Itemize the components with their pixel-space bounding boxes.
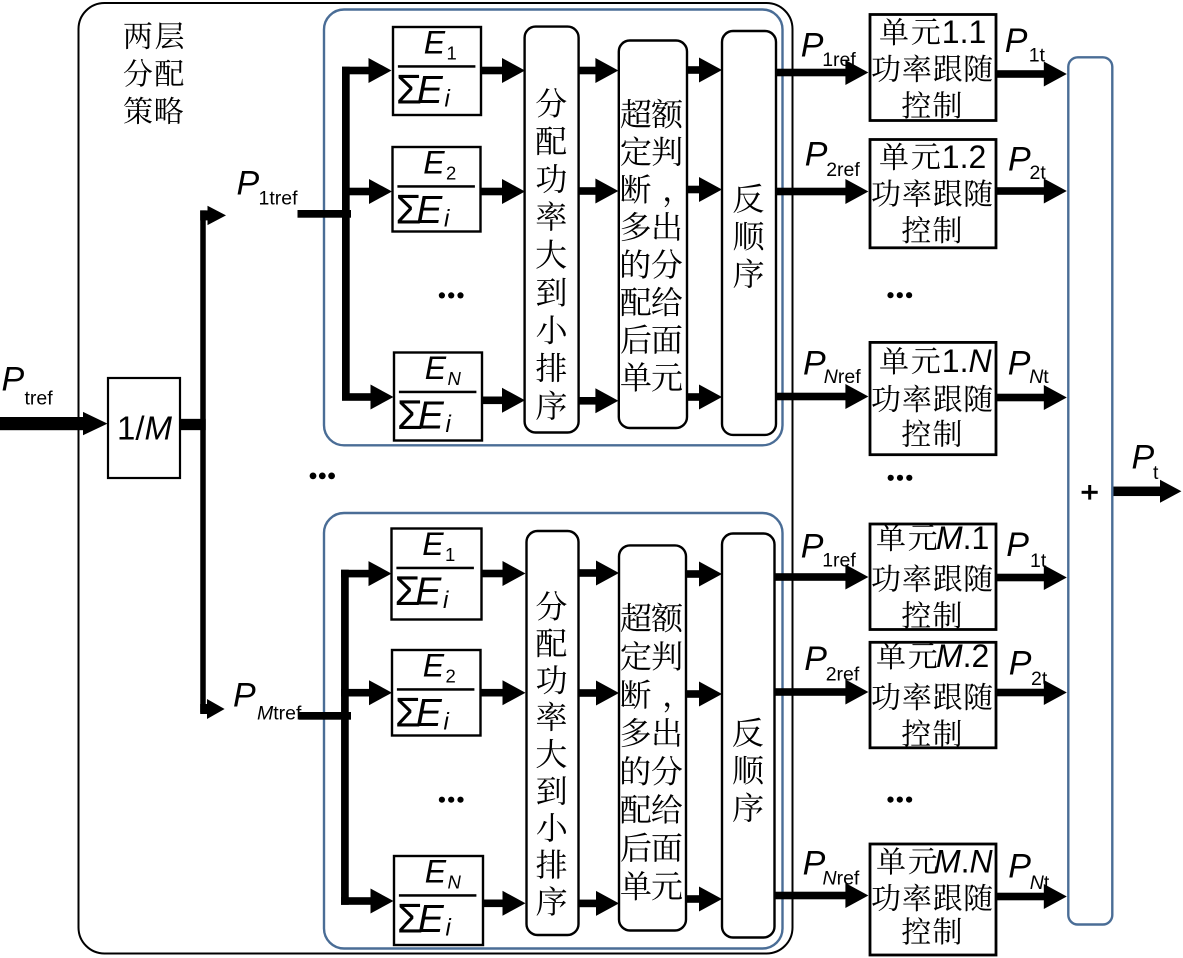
wire overrating to reverse row3 group1 [687, 393, 701, 401]
wire trunk to E2 groupM [341, 689, 371, 697]
wire trunk to E2 group1 [342, 188, 371, 196]
wire P_Mtref feed into group M [299, 712, 351, 720]
svg-text:Mtref: Mtref [257, 703, 302, 725]
wire 1/M output to branch trunk [181, 419, 206, 430]
svg-text:E: E [425, 350, 447, 386]
box E_2/sumE_i at (392.5,147) [393, 144, 481, 232]
svg-text:1t: 1t [1030, 550, 1047, 572]
wire sort to overrating row2 groupM [579, 689, 599, 697]
wire E2 to sort group1 [481, 188, 505, 196]
svg-text:E: E [416, 692, 443, 735]
wire P_1tref feed into group 1 [298, 210, 352, 218]
outer strategy boundary box [79, 3, 793, 954]
svg-text:P: P [1008, 344, 1031, 382]
group M blue rounded container [324, 513, 783, 949]
plus sign in summation box [1082, 491, 1098, 494]
wire unit 1.1 to sum [996, 70, 1046, 78]
svg-text:P: P [1009, 644, 1032, 682]
svg-text:i: i [445, 86, 451, 113]
svg-text:P: P [237, 164, 260, 202]
wire unit M.N to sum [996, 893, 1046, 901]
svg-text:i: i [446, 411, 452, 438]
svg-text:2: 2 [446, 665, 456, 686]
wire EN to sort groupM [483, 900, 505, 908]
svg-text:Nref: Nref [823, 868, 860, 890]
dots units bottom column [887, 797, 893, 803]
summation blue rounded box [1068, 57, 1112, 924]
box 1/M divider [108, 378, 180, 478]
svg-text:2ref: 2ref [826, 663, 860, 685]
svg-text:E: E [418, 898, 445, 941]
wire sort to overrating row3 groupM [579, 900, 599, 908]
wire E1 to sort groupM [482, 570, 505, 578]
svg-text:Nref: Nref [824, 366, 861, 388]
box E_N/sumE_i at (394,352.5) [394, 350, 482, 441]
svg-text:E: E [417, 69, 444, 112]
box sort 分配功率大到小排序 (group 1) [525, 27, 579, 433]
svg-text:E: E [418, 395, 445, 438]
svg-text:1: 1 [445, 544, 455, 565]
box sort 分配功率大到小排序 (group M) [527, 531, 579, 935]
box unit M.N power-follow control [870, 843, 996, 955]
box E_N/sumE_i at (394,856) [394, 853, 483, 945]
svg-text:P: P [1008, 848, 1031, 886]
box unit M.1 power-follow control [870, 520, 996, 630]
svg-text:t: t [1153, 462, 1159, 484]
wire reverse to unit M.1 [775, 573, 848, 581]
svg-text:E: E [415, 571, 442, 614]
svg-text:1.N: 1.N [942, 343, 993, 379]
svg-text:i: i [444, 206, 450, 233]
wire E2 to sort groupM [481, 689, 505, 697]
svg-text:E: E [424, 24, 446, 60]
svg-text:P: P [805, 136, 828, 174]
box E_1/sumE_i at (393,27) [393, 24, 481, 115]
svg-text:E: E [422, 526, 444, 562]
wire reverse to unit 1.N [776, 393, 847, 401]
box reverse 反顺序 (group M) [722, 534, 775, 938]
svg-text:E: E [423, 647, 445, 683]
dots units top column [887, 292, 893, 298]
wire output arrow P_t [1114, 487, 1163, 497]
wire overrating to reverse row1 group1 [687, 66, 701, 74]
svg-text:1: 1 [447, 42, 457, 63]
box over-rating 超额定判断 (group M) [619, 545, 686, 930]
svg-text:P: P [1005, 22, 1028, 60]
svg-text:N: N [448, 368, 462, 389]
svg-text:1t: 1t [1029, 44, 1046, 66]
box unit M.2 power-follow control [870, 638, 996, 748]
box over-rating 超额定判断 (group 1) [619, 41, 687, 429]
svg-text:P: P [1132, 439, 1155, 477]
wire unit M.1 to sum [996, 574, 1046, 582]
box E_2/sumE_i at (392,650) [392, 647, 481, 735]
svg-text:i: i [444, 709, 450, 736]
dots units middle [888, 475, 894, 481]
wire trunk to E1 groupM [341, 570, 371, 578]
svg-text:P: P [801, 27, 824, 65]
wire trunk to E1 group1 [342, 67, 371, 75]
wire sort to overrating row2 group1 [579, 187, 598, 195]
svg-text:M.1: M.1 [936, 520, 989, 556]
wire branch trunk vertical [200, 210, 206, 712]
wire groupM trunk [341, 570, 349, 905]
svg-text:Nt: Nt [1030, 872, 1050, 894]
svg-text:E: E [416, 189, 443, 232]
wire overrating to reverse row2 group1 [687, 186, 701, 194]
svg-text:P: P [2, 361, 25, 399]
svg-text:P: P [803, 345, 826, 383]
wire trunk to EN group1 [342, 393, 373, 401]
wire sort to overrating row1 groupM [579, 569, 599, 577]
dots groupM E column [439, 797, 445, 803]
svg-text:1.2: 1.2 [942, 139, 986, 175]
dots between groups [310, 473, 317, 480]
svg-text:P: P [1008, 140, 1031, 178]
svg-text:1ref: 1ref [822, 49, 856, 71]
svg-text:1.1: 1.1 [942, 14, 986, 50]
svg-text:2t: 2t [1030, 162, 1047, 184]
svg-text:E: E [425, 853, 447, 889]
wire overrating to reverse row2 groupM [686, 690, 701, 698]
svg-text:N: N [448, 871, 462, 892]
wire reverse to unit 1.1 [776, 69, 847, 77]
wire EN to sort group1 [482, 397, 504, 405]
group 1 blue rounded container [324, 10, 783, 446]
svg-text:Nt: Nt [1029, 366, 1049, 388]
svg-text:i: i [446, 915, 452, 942]
svg-text:P: P [233, 677, 256, 715]
svg-text:2t: 2t [1031, 668, 1048, 690]
wire overrating to reverse row3 groupM [686, 895, 701, 903]
wire reverse to unit M.N [775, 892, 848, 900]
svg-text:1/M: 1/M [117, 410, 173, 447]
wire reverse to unit M.2 [775, 688, 848, 696]
svg-text:tref: tref [25, 388, 54, 410]
wire unit 1.2 to sum [996, 187, 1046, 195]
box unit 1.N power-follow control [870, 342, 996, 454]
svg-text:P: P [1006, 526, 1029, 564]
box E_1/sumE_i at (391.5,528.5) [392, 526, 482, 620]
wire reverse to unit 1.2 [776, 188, 847, 196]
svg-text:M.N: M.N [934, 843, 994, 879]
wire branch arrow to P_1tref [200, 210, 208, 220]
wire sort to overrating row1 group1 [579, 67, 598, 75]
svg-text:P: P [801, 528, 824, 566]
svg-text:E: E [423, 144, 445, 180]
box unit 1.2 power-follow control [870, 139, 996, 248]
svg-text:2ref: 2ref [826, 159, 860, 181]
wire E1 to sort group1 [481, 67, 504, 75]
wire group1 trunk [342, 67, 350, 401]
box reverse 反顺序 (group 1) [722, 31, 776, 435]
wire branch arrow to P_Mtref [200, 704, 208, 714]
title 两层分配策略 [124, 22, 184, 124]
svg-text:i: i [443, 587, 449, 614]
wire unit M.2 to sum [996, 689, 1046, 697]
svg-text:P: P [804, 640, 827, 678]
svg-text:1tref: 1tref [259, 188, 299, 210]
wire sort to overrating row3 group1 [579, 397, 598, 405]
dots group1 E column [439, 292, 445, 298]
box unit 1.1 power-follow control [870, 14, 996, 121]
wire trunk to EN groupM [341, 897, 373, 905]
svg-text:2: 2 [446, 162, 456, 183]
wire overrating to reverse row1 groupM [686, 570, 701, 578]
svg-text:1ref: 1ref [822, 549, 856, 571]
wire main input arrow into 1/M [0, 417, 85, 430]
svg-text:M.2: M.2 [936, 638, 989, 674]
wire unit 1.N to sum [996, 394, 1046, 402]
